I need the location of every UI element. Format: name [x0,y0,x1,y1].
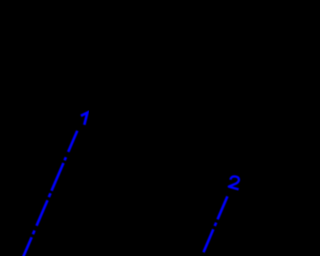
node label 2 [229,176,239,189]
node label 1 [81,113,88,125]
wire: dash-dot line 1 [23,131,77,256]
wire: dash-dot line 2 [204,196,228,252]
